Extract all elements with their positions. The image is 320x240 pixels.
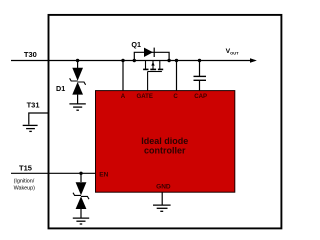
svg-text:T15: T15 <box>19 163 32 172</box>
junction dot branch right <box>167 59 170 62</box>
svg-text:Ideal diode: Ideal diode <box>141 136 188 146</box>
module boundary box <box>49 15 282 229</box>
wire to pin A <box>122 61 124 91</box>
svg-text:T30: T30 <box>24 50 37 59</box>
junction dot T15 TVS <box>79 172 82 175</box>
VOUT arrow head <box>250 58 257 63</box>
wire capacitor to pin CAP <box>199 80 201 90</box>
junction dot C <box>175 59 178 62</box>
wire T15 to EN <box>11 172 96 174</box>
wire T31 <box>29 113 48 125</box>
capacitor <box>194 76 207 80</box>
wire to capacitor <box>199 61 201 77</box>
svg-text:T31: T31 <box>27 100 40 109</box>
ground (T31) <box>23 125 38 131</box>
svg-text:GND: GND <box>156 184 171 191</box>
wire TVS lead <box>80 173 82 182</box>
junction dot D1 <box>76 59 79 62</box>
ground (GND pin) <box>153 205 171 211</box>
diode D1 (bidirectional TVS) <box>70 68 86 104</box>
svg-text:Wakeup): Wakeup) <box>14 185 36 191</box>
wire D1 lead <box>77 61 79 69</box>
junction dot A <box>121 59 124 62</box>
TVS diode (on T15 line) <box>73 182 89 218</box>
svg-text:C: C <box>173 93 178 100</box>
svg-text:Q1: Q1 <box>131 40 141 49</box>
junction dot branch left <box>133 59 136 62</box>
ground (under D1) <box>69 104 85 110</box>
svg-text:(Ignition/: (Ignition/ <box>14 179 35 185</box>
svg-text:D1: D1 <box>56 84 65 93</box>
svg-text:EN: EN <box>99 172 108 179</box>
transistor Q1 (MOSFET) <box>143 61 163 72</box>
wire T30 main rail to VOUT <box>11 60 251 62</box>
svg-text:A: A <box>121 93 126 100</box>
wire gate to GATE pin <box>147 72 149 91</box>
junction dot CAP <box>198 59 201 62</box>
wire to pin C <box>176 61 178 91</box>
svg-text:controller: controller <box>144 146 186 156</box>
Q1 body diode <box>144 48 154 57</box>
ground (under T15 TVS) <box>73 218 89 224</box>
svg-text:GATE: GATE <box>136 93 152 100</box>
wire GND pin to ground <box>161 192 163 205</box>
wire Q1 body-diode branch <box>134 52 169 60</box>
svg-text:CAP: CAP <box>194 93 207 100</box>
IC U1 ideal diode controller <box>96 91 235 193</box>
